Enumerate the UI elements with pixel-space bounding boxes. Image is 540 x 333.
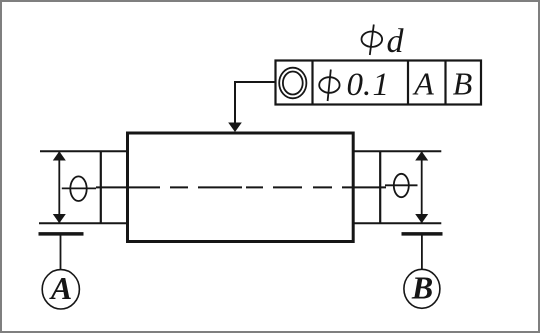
datum B target bar	[402, 232, 443, 236]
svg-text:B: B	[453, 66, 473, 102]
left top extension line	[40, 150, 128, 152]
centerline dashed	[96, 186, 386, 188]
svg-text:1: 1	[373, 67, 390, 103]
leader line to frame	[235, 82, 276, 125]
datum B leader	[421, 236, 423, 271]
right dimension line	[421, 152, 423, 223]
left journal edge	[100, 151, 102, 224]
right journal edge	[379, 151, 381, 224]
svg-text:d: d	[387, 23, 405, 60]
concentricity symbol	[279, 68, 306, 99]
left rotated diameter symbol	[62, 176, 96, 201]
svg-text:A: A	[412, 66, 434, 102]
diameter symbol in tolerance cell	[319, 70, 339, 102]
datum B circle	[404, 269, 440, 308]
left dimension top arrowhead	[53, 151, 66, 160]
left dimension line	[58, 152, 60, 223]
right rotated diameter symbol	[385, 174, 418, 197]
shaft body	[128, 133, 354, 242]
feature control frame box	[276, 61, 482, 105]
right dimension bottom arrowhead	[415, 214, 428, 223]
left dimension bottom arrowhead	[53, 214, 66, 223]
right bottom extension line	[353, 222, 441, 224]
right top extension line	[353, 150, 441, 152]
datum A circle	[42, 270, 79, 309]
svg-text:A: A	[49, 270, 72, 306]
svg-text:B: B	[411, 270, 433, 306]
datum A target bar	[39, 232, 84, 236]
svg-text:0.: 0.	[347, 67, 372, 103]
left bottom extension line	[39, 222, 128, 224]
datum A leader	[60, 236, 62, 271]
leader arrowhead	[228, 123, 242, 133]
diameter symbol of label ⌀d	[362, 25, 383, 56]
right dimension top arrowhead	[415, 151, 428, 160]
